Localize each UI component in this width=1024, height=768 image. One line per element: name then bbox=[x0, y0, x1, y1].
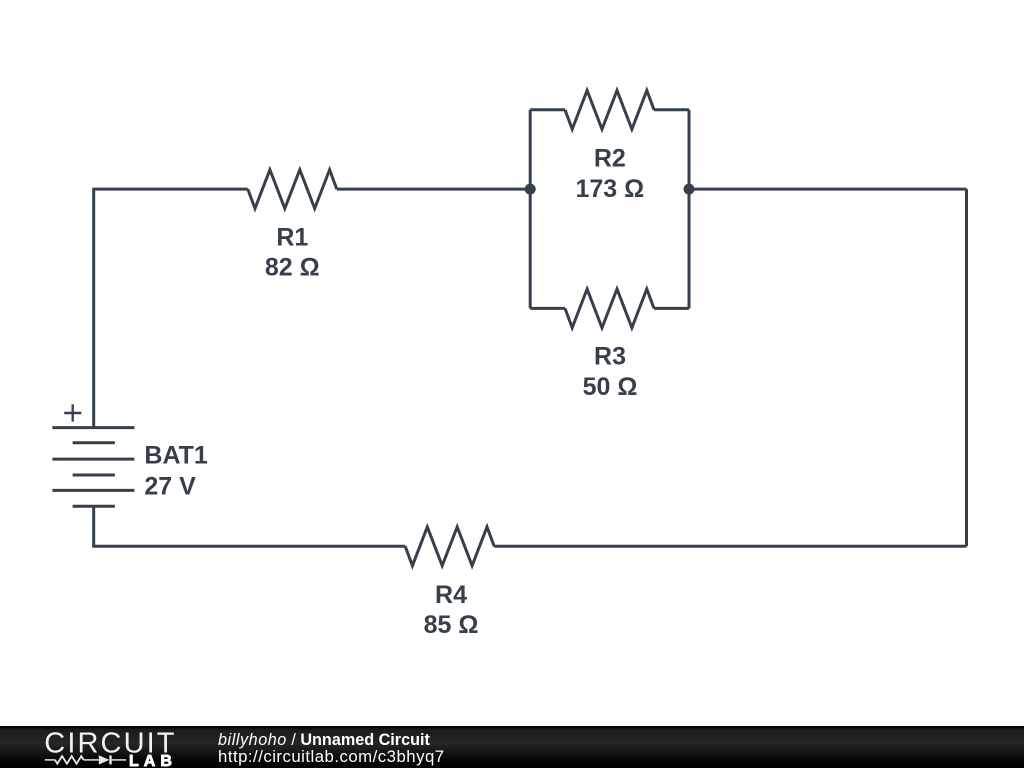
resistor R4 bbox=[405, 527, 494, 566]
wire R1 to node A bbox=[337, 188, 530, 191]
logo doodle wire right bbox=[112, 759, 126, 761]
logo doodle resistor zigzag bbox=[55, 756, 84, 764]
wire left vertical top (battery + to top-left corner) bbox=[94, 189, 248, 428]
wire R3 branch left lead bbox=[530, 307, 565, 310]
svg-text:R3: R3 bbox=[594, 342, 626, 370]
battery BAT1 plate 4 short bbox=[73, 474, 115, 477]
logo doodle diode cathode bar bbox=[109, 755, 111, 764]
battery BAT1 plate 3 long bbox=[52, 458, 134, 461]
battery BAT1 plate 6 short bbox=[73, 505, 115, 508]
resistor R1 bbox=[248, 170, 337, 209]
logo doodle diode triangle bbox=[99, 755, 110, 764]
node B junction dot bbox=[684, 184, 695, 195]
svg-text:R1: R1 bbox=[276, 223, 308, 251]
wire bottom right segment bbox=[494, 545, 966, 548]
svg-text:85 Ω: 85 Ω bbox=[424, 611, 479, 639]
svg-text:82 Ω: 82 Ω bbox=[265, 254, 320, 282]
wire R3 branch right lead bbox=[654, 307, 689, 310]
logo doodle wire left bbox=[45, 759, 55, 761]
svg-text:R4: R4 bbox=[435, 581, 467, 609]
battery BAT1 plate 2 short bbox=[73, 441, 115, 444]
battery BAT1 plate 1 long bbox=[52, 426, 134, 429]
svg-text:27 V: 27 V bbox=[144, 472, 196, 500]
wire right vertical bbox=[965, 189, 968, 546]
resistor R3 bbox=[565, 289, 654, 328]
svg-text:http://circuitlab.com/c3bhyq7: http://circuitlab.com/c3bhyq7 bbox=[218, 747, 445, 766]
wire node B to right edge bbox=[689, 188, 967, 191]
wire bottom left segment bbox=[94, 506, 406, 546]
svg-text:173 Ω: 173 Ω bbox=[575, 175, 644, 203]
wire parallel box left vertical bbox=[529, 110, 532, 309]
resistor R2 bbox=[565, 90, 654, 129]
wire R2 branch left lead bbox=[530, 108, 565, 111]
svg-text:50 Ω: 50 Ω bbox=[583, 373, 638, 401]
svg-text:BAT1: BAT1 bbox=[144, 442, 208, 470]
battery BAT1 plate 5 long bbox=[52, 489, 134, 492]
logo doodle wire mid bbox=[84, 759, 99, 761]
wire parallel box right vertical bbox=[688, 110, 691, 309]
node A junction dot bbox=[525, 184, 536, 195]
svg-text:R2: R2 bbox=[594, 144, 626, 172]
wire R2 branch right lead bbox=[654, 108, 689, 111]
svg-text:LAB: LAB bbox=[129, 753, 177, 768]
battery plus sign bbox=[64, 404, 81, 421]
